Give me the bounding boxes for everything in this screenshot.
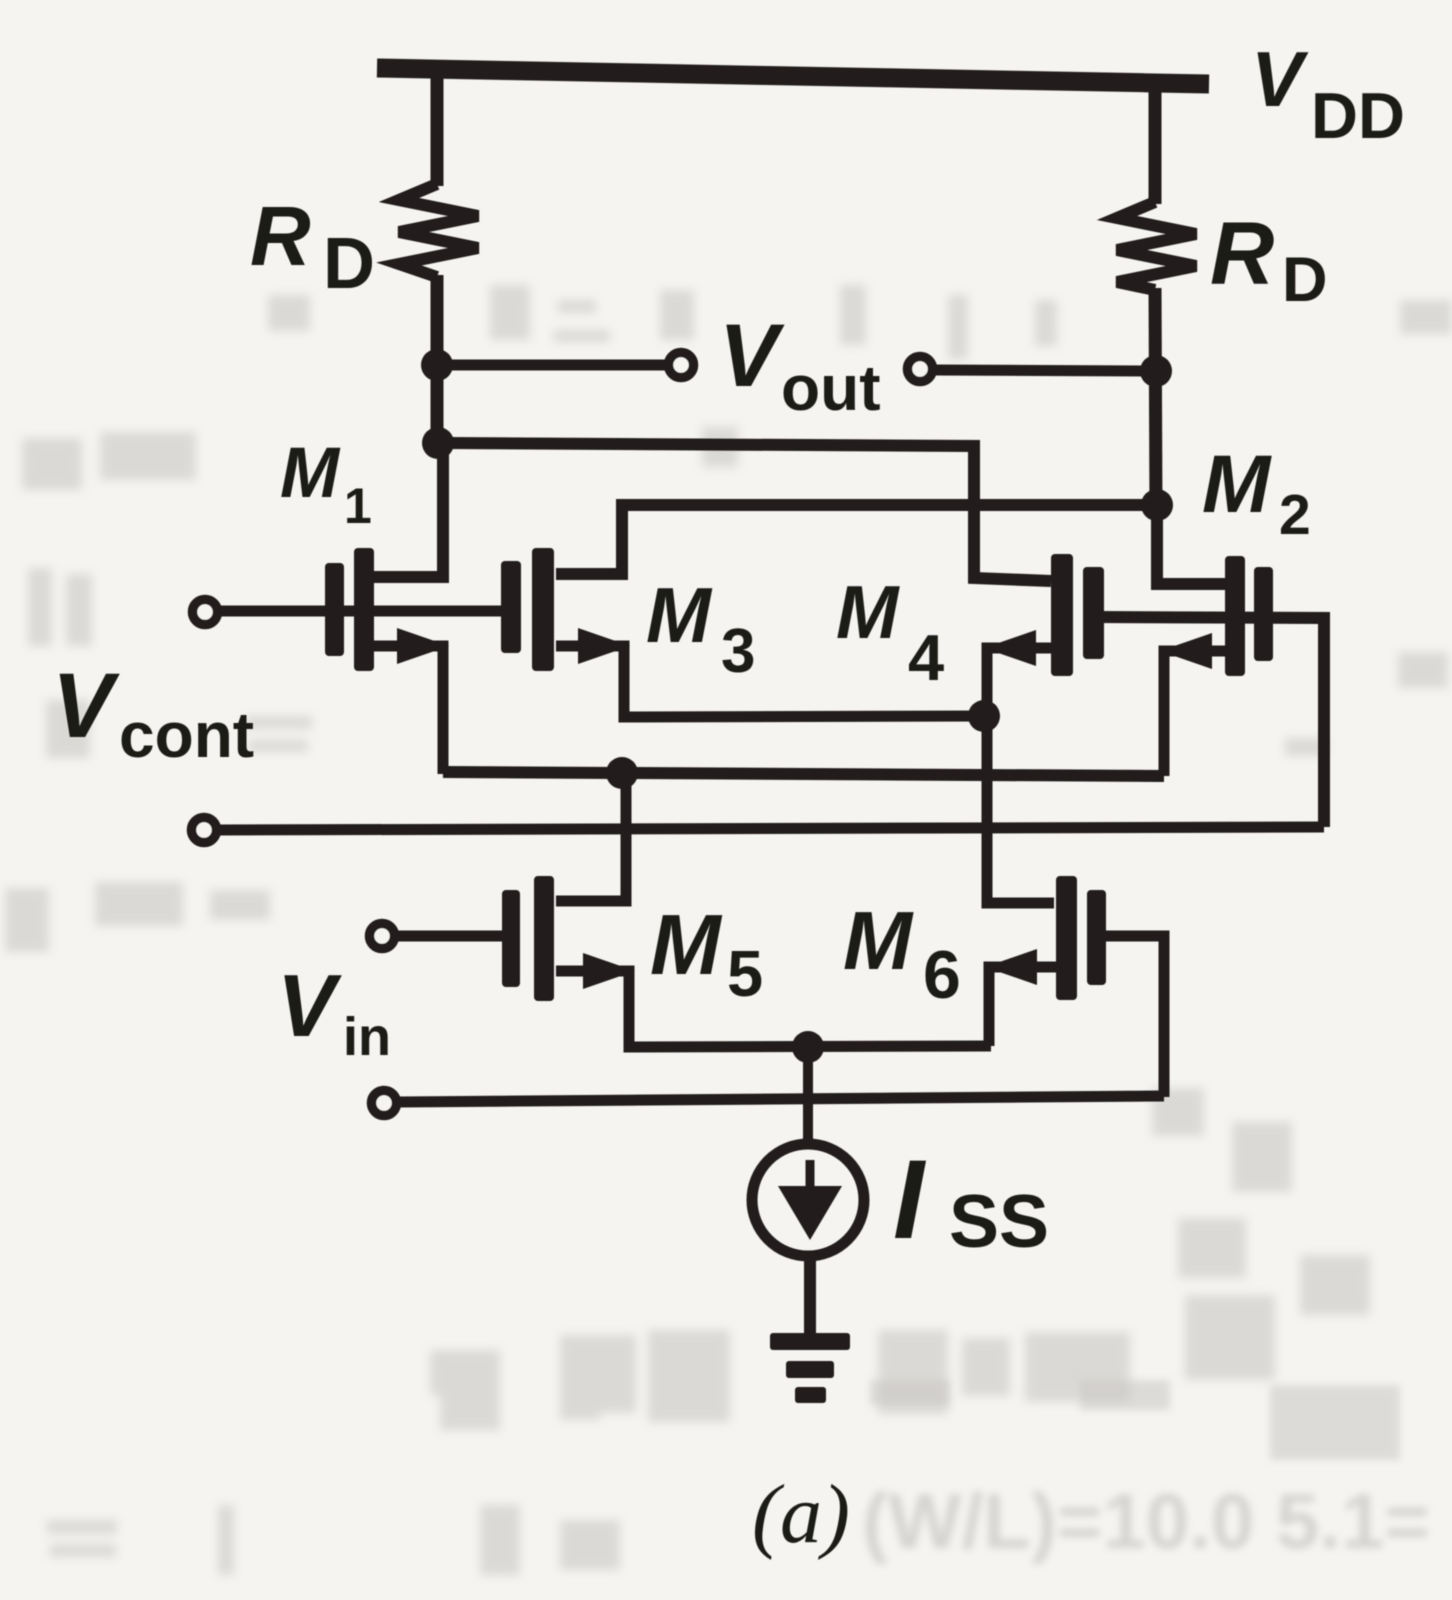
- wire: left vertical (resistor to M1 drain): [431, 275, 444, 450]
- svg-text:V: V: [719, 305, 785, 405]
- svg-text:D: D: [1282, 245, 1328, 315]
- svg-text:1: 1: [344, 478, 372, 534]
- node: right output junction: [1140, 355, 1172, 387]
- transistor M4: [984, 554, 1104, 903]
- svg-text:6: 6: [923, 937, 961, 1013]
- svg-text:2: 2: [1279, 483, 1311, 547]
- svg-text:M: M: [280, 434, 341, 513]
- transistor M5: [502, 775, 991, 1047]
- wire: tail node to current source: [803, 1047, 813, 1146]
- resistor RD (left): [399, 184, 478, 277]
- transistor M6: [985, 876, 1164, 1097]
- node: M1 drain junction: [422, 427, 454, 459]
- svg-text:M: M: [1202, 439, 1272, 530]
- svg-text:(a): (a): [752, 1468, 850, 1561]
- svg-text:I: I: [893, 1137, 927, 1262]
- svg-text:V: V: [277, 956, 342, 1055]
- svg-text:in: in: [343, 1007, 391, 1067]
- svg-text:M: M: [843, 894, 914, 987]
- ground: [770, 1333, 850, 1403]
- svg-text:out: out: [781, 352, 881, 424]
- transistor M1: [325, 449, 449, 774]
- svg-text:DD: DD: [1311, 79, 1405, 152]
- svg-text:M: M: [650, 898, 723, 993]
- wire: right branch from rail to resistor: [1149, 82, 1162, 204]
- wire: M1 drain to M4 drain (cross couple): [444, 443, 1051, 581]
- svg-text:3: 3: [721, 617, 755, 686]
- wire: M3 drain to M2 drain (cross couple): [556, 505, 1150, 574]
- wire: VDD supply rail: [377, 68, 1209, 84]
- terminal: Vin bottom: [372, 1091, 397, 1116]
- terminal: Vin top: [370, 924, 395, 949]
- svg-text:M: M: [646, 571, 713, 659]
- resistor RD (right): [1117, 202, 1196, 290]
- svg-text:M: M: [836, 570, 900, 654]
- transistor M2: [1157, 505, 1273, 776]
- svg-text:4: 4: [908, 621, 944, 694]
- svg-text:(W/L)=10.0 5.1=: (W/L)=10.0 5.1=: [862, 1477, 1430, 1565]
- wire: current source to ground: [804, 1256, 816, 1336]
- terminal: Vout right: [908, 357, 933, 382]
- node: M3/M4 source junction: [968, 700, 1000, 732]
- wire: left Vout tap: [437, 360, 666, 371]
- node: M2 drain / cross-couple junction: [1141, 489, 1173, 521]
- transistor M3: [501, 548, 984, 717]
- wire: M2/M4 gate line down to Vcont lead: [1092, 617, 1324, 827]
- svg-text:5: 5: [727, 937, 763, 1010]
- terminal: Vcont top: [193, 600, 218, 625]
- wire: Vin top lead to M5 gate: [396, 931, 511, 942]
- svg-text:D: D: [323, 224, 375, 304]
- svg-text:cont: cont: [119, 699, 254, 771]
- wire: Vcont bottom lead to M2/M4 gates: [219, 827, 1324, 830]
- svg-text:R: R: [250, 189, 311, 283]
- wire: M1/M2 source rail (to M5 drain): [443, 772, 1164, 776]
- wire: Vcont top lead to M1/M3 gates: [219, 606, 512, 617]
- node: left output junction: [421, 349, 453, 381]
- wire: Vin bottom lead to M6 gate: [399, 1096, 1164, 1102]
- wire: right vertical (resistor to M2 drain): [1155, 288, 1156, 511]
- wire: right Vout tap: [935, 370, 1156, 371]
- svg-text:V: V: [1251, 35, 1309, 123]
- terminal: Vcont bottom: [192, 818, 217, 843]
- svg-text:R: R: [1210, 203, 1274, 303]
- node: tail current junction: [792, 1031, 824, 1063]
- svg-text:SS: SS: [949, 1179, 1049, 1263]
- svg-text:V: V: [52, 655, 120, 757]
- node: M5 drain junction: [606, 757, 638, 789]
- wire: left branch from rail to resistor: [431, 76, 444, 186]
- current source ISS: [752, 1144, 864, 1256]
- terminal: Vout left: [669, 353, 694, 378]
